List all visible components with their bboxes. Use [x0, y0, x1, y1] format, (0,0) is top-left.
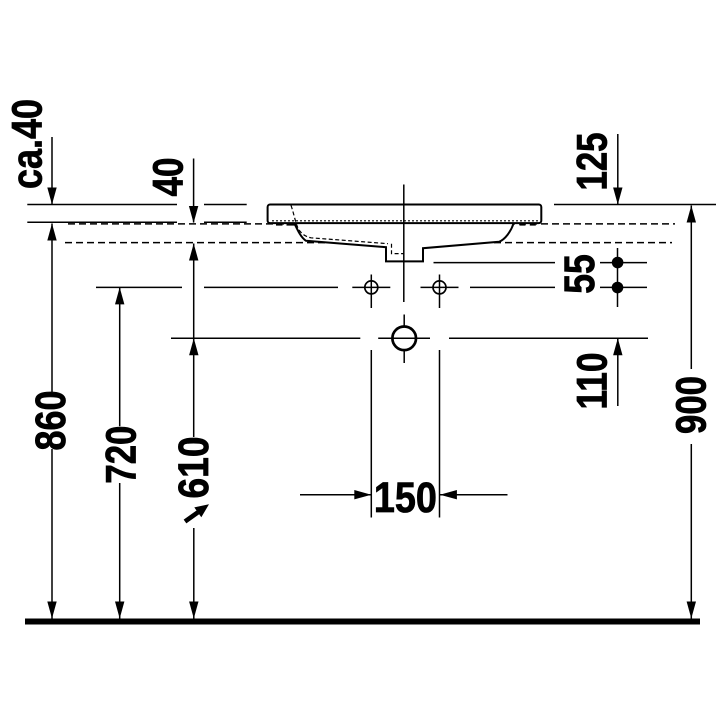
svg-text:610: 610	[170, 437, 218, 499]
svg-text:40: 40	[145, 158, 193, 197]
svg-text:150: 150	[374, 474, 437, 522]
svg-text:860: 860	[27, 391, 75, 451]
svg-text:55: 55	[556, 254, 604, 294]
svg-text:ca.40: ca.40	[4, 99, 52, 189]
svg-text:125: 125	[568, 133, 616, 191]
svg-text:900: 900	[667, 376, 715, 434]
svg-text:110: 110	[569, 353, 617, 410]
svg-text:720: 720	[98, 426, 146, 484]
